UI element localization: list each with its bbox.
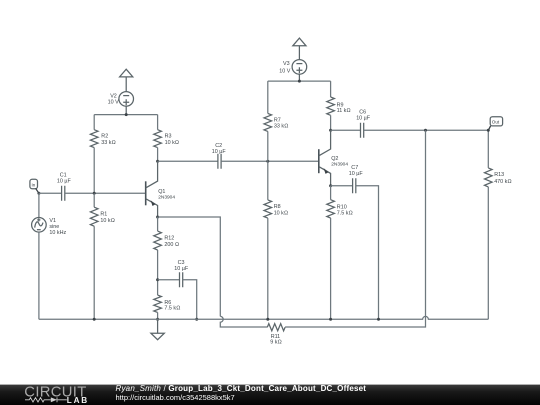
svg-text:sine: sine xyxy=(49,224,59,230)
resistor R1 xyxy=(90,207,114,226)
ground xyxy=(151,319,164,339)
node C3 ground junction xyxy=(195,318,198,321)
node V2-rail junction xyxy=(125,113,128,116)
wire R13 bottom xyxy=(487,187,489,319)
wire feedback hop right xyxy=(285,130,425,327)
node Q1 collector junction xyxy=(156,160,159,163)
wire base junction to R1 xyxy=(93,193,95,207)
wire R10 top xyxy=(330,186,332,200)
resistor R3 xyxy=(154,130,179,148)
node Q2 emitter junction xyxy=(329,184,332,187)
voltage source V3 xyxy=(279,60,306,81)
wire C7 right branch xyxy=(356,186,379,320)
wire V2 rail xyxy=(94,114,157,116)
resistor R13 xyxy=(485,168,512,187)
node R1-R2 base junction xyxy=(93,192,96,195)
svg-text:470 kΩ: 470 kΩ xyxy=(494,179,511,185)
node C7 ground junction xyxy=(377,318,380,321)
svg-text:10 µF: 10 µF xyxy=(356,116,371,122)
svg-text:Q2: Q2 xyxy=(331,156,338,162)
node R1 ground junction xyxy=(93,318,96,321)
wire C6 to out xyxy=(364,129,489,131)
capacitor C3 xyxy=(174,260,189,287)
wire R12 top xyxy=(157,217,159,231)
node Q2 collector junction xyxy=(329,129,332,132)
node R7-R8 junction xyxy=(266,160,269,163)
voltage source V2 xyxy=(108,92,134,115)
wire R12 bottom xyxy=(157,250,159,295)
voltage source V1 xyxy=(32,193,67,319)
wire feedback hop left xyxy=(220,316,267,327)
svg-text:11 kΩ: 11 kΩ xyxy=(337,108,351,114)
flag Out xyxy=(487,117,503,132)
node output junction xyxy=(424,129,427,132)
wire ground rail xyxy=(39,316,488,319)
node In junction xyxy=(37,192,40,195)
node R6 ground junction xyxy=(156,318,159,321)
wire R2 bottom xyxy=(93,148,95,194)
wire R7 bottom xyxy=(267,131,269,161)
svg-text:Q1: Q1 xyxy=(158,189,165,195)
wire R9 bottom xyxy=(330,115,332,130)
wire C6 left xyxy=(331,129,361,131)
svg-text:V3: V3 xyxy=(283,61,290,67)
svg-text:2N3904: 2N3904 xyxy=(331,161,348,167)
svg-text:2N3904: 2N3904 xyxy=(158,194,175,200)
svg-text:Out: Out xyxy=(492,120,500,125)
svg-text:33 kΩ: 33 kΩ xyxy=(101,140,115,146)
svg-text:R13: R13 xyxy=(494,172,504,178)
svg-text:Ryan_Smith / Group_Lab_3_Ckt_D: Ryan_Smith / Group_Lab_3_Ckt_Dont_Care_A… xyxy=(116,384,367,393)
svg-text:C7: C7 xyxy=(351,165,358,171)
wire rail to R9 xyxy=(330,81,332,97)
wire rail to R3 xyxy=(157,115,159,130)
wire C3 left xyxy=(158,279,180,281)
node R8 ground junction xyxy=(266,318,269,321)
resistor R10 xyxy=(327,200,353,218)
svg-text:R2: R2 xyxy=(101,134,108,140)
node Q1 emitter junction xyxy=(156,216,159,219)
svg-text:10 V: 10 V xyxy=(279,68,290,74)
svg-text:10 kHz: 10 kHz xyxy=(49,230,66,236)
capacitor C1 xyxy=(57,173,72,201)
wire R3 bottom xyxy=(157,148,159,162)
svg-text:LAB: LAB xyxy=(67,396,89,405)
wire rail to R7 xyxy=(267,81,269,113)
resistor R2 xyxy=(90,130,115,148)
svg-text:33 kΩ: 33 kΩ xyxy=(274,123,288,129)
power flag (V2 top) xyxy=(120,69,133,91)
svg-text:10 V: 10 V xyxy=(108,99,119,105)
resistor R7 xyxy=(264,113,288,131)
node C3 junction xyxy=(156,278,159,281)
wire V3 rail xyxy=(268,80,331,82)
wire R8 top xyxy=(267,161,269,200)
power flag (V3 top) xyxy=(293,38,306,60)
wire R10 bottom xyxy=(330,218,332,319)
wire R13 top xyxy=(487,130,489,168)
wire C2 to Q2 base xyxy=(221,160,319,162)
wire C2 left xyxy=(158,160,218,162)
capacitor C7 xyxy=(349,165,364,193)
resistor R8 xyxy=(264,200,288,218)
wire C3 right branch xyxy=(183,280,197,320)
wire C7 left xyxy=(331,185,353,187)
svg-text:10 µF: 10 µF xyxy=(57,179,72,185)
transistor Q1 xyxy=(146,161,176,217)
svg-text:10 kΩ: 10 kΩ xyxy=(100,218,114,224)
svg-text:10 µF: 10 µF xyxy=(212,149,227,155)
svg-text:10 kΩ: 10 kΩ xyxy=(274,210,288,216)
svg-text:In: In xyxy=(32,183,36,188)
svg-text:http://circuitlab.com/c3542588: http://circuitlab.com/c3542588kx5k7 xyxy=(116,393,235,402)
wire emitter to feedback xyxy=(158,217,221,316)
capacitor C6 xyxy=(356,110,371,138)
svg-text:V1: V1 xyxy=(49,218,56,224)
wire In to C1 xyxy=(39,192,62,194)
svg-text:R1: R1 xyxy=(100,212,107,218)
wire C1 to Q1 base xyxy=(65,192,146,194)
resistor R6 xyxy=(154,295,180,312)
resistor R11 xyxy=(267,324,285,346)
resistor R12 xyxy=(154,231,179,250)
svg-text:7.5 kΩ: 7.5 kΩ xyxy=(164,306,180,312)
svg-text:7.5 kΩ: 7.5 kΩ xyxy=(337,210,353,216)
wire rail to R2 xyxy=(93,115,95,130)
transistor Q2 xyxy=(319,130,349,185)
wire R6 bottom xyxy=(157,312,159,319)
svg-text:R8: R8 xyxy=(274,204,281,210)
svg-text:R12: R12 xyxy=(164,236,174,242)
svg-text:200 Ω: 200 Ω xyxy=(164,242,179,248)
node R10 ground junction xyxy=(329,318,332,321)
wire R1 bottom xyxy=(93,226,95,319)
svg-text:10 µF: 10 µF xyxy=(174,266,189,272)
svg-text:V2: V2 xyxy=(110,93,117,99)
flag In xyxy=(30,179,39,193)
wire R8 bottom xyxy=(267,218,269,319)
svg-text:9 kΩ: 9 kΩ xyxy=(270,340,281,346)
node V3-rail junction xyxy=(298,80,301,83)
capacitor C2 xyxy=(212,143,227,169)
svg-text:10 kΩ: 10 kΩ xyxy=(165,140,179,146)
resistor R9 xyxy=(327,97,351,115)
svg-text:R3: R3 xyxy=(165,134,172,140)
svg-text:10 µF: 10 µF xyxy=(349,171,364,177)
